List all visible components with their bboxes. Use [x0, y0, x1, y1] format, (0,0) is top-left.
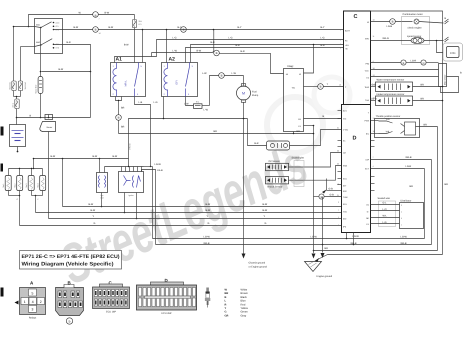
svg-text:B-W: B-W [89, 203, 94, 206]
svg-text:B-W: B-W [124, 44, 129, 47]
svg-text:Knock Sensor: Knock Sensor [268, 185, 283, 188]
svg-text:THW: THW [364, 86, 369, 89]
wire B-W starter feed [42, 68, 92, 118]
bus row3 Y [49, 215, 342, 218]
svg-text:2: 2 [40, 300, 42, 304]
svg-text:B: B [320, 85, 322, 89]
wire VCC [371, 69, 439, 71]
chassis ground text [249, 262, 268, 269]
wire diag OX [304, 115, 342, 118]
svg-text:EFI: EFI [176, 80, 179, 84]
svg-text:Sealed wire: Sealed wire [292, 157, 305, 160]
svg-text:G: G [208, 222, 210, 225]
svg-text:L-W: L-W [173, 50, 178, 53]
svg-text:SPD: SPD [365, 38, 370, 41]
edge mark 1 [1, 127, 4, 136]
connector circle B7 [93, 12, 135, 21]
svg-text:KNK: KNK [343, 165, 348, 168]
svg-text:LG-W: LG-W [401, 236, 408, 239]
connector A relays [20, 281, 46, 320]
fuel pump [237, 76, 259, 103]
svg-text:Y-G: Y-G [386, 118, 390, 121]
connector circle B fp [214, 50, 271, 56]
svg-text:G: G [94, 222, 96, 225]
starter [40, 115, 56, 132]
svg-text:ST2: ST2 [56, 47, 59, 50]
water temperature sensor [371, 79, 444, 92]
svg-text:11: 11 [373, 35, 375, 38]
FCD [437, 41, 463, 62]
relay A1 ground BR [116, 97, 125, 115]
ignitor [119, 167, 144, 198]
ECU connector C box [339, 11, 375, 105]
wire G-B sensor return [322, 179, 342, 194]
connector circle B ig2 [181, 27, 187, 33]
svg-text:THA: THA [365, 99, 370, 102]
connector B [56, 281, 84, 325]
svg-text:GR-B: GR-B [401, 242, 407, 245]
svg-text:D: D [353, 136, 357, 142]
svg-text:W: W [299, 73, 301, 76]
O2 sensor [266, 160, 289, 171]
svg-text:B-W: B-W [59, 68, 64, 71]
svg-text:D: D [423, 62, 425, 65]
title box [20, 251, 122, 270]
injector No.2 [14, 169, 23, 196]
connector C 16P [93, 281, 130, 314]
svg-text:Map sensor: Map sensor [443, 74, 446, 85]
svg-text:MR-L: MR-L [125, 80, 128, 87]
svg-text:B: B [95, 28, 97, 32]
injector No.1 [2, 169, 11, 196]
svg-text:No.4: No.4 [37, 184, 40, 188]
svg-text:Starter: Starter [46, 126, 52, 129]
fuse 30A AM2 [18, 81, 27, 97]
wire LG-R from D [371, 165, 425, 168]
row BR ground [313, 247, 438, 251]
wire circuit opening relay drop [213, 29, 215, 51]
D bottom pin GR-B [353, 233, 355, 246]
svg-text:Green: Green [241, 311, 249, 314]
wire B-W ign IG to B16 [54, 26, 93, 30]
svg-text:VCC: VCC [365, 70, 370, 73]
svg-text:B-W: B-W [91, 209, 96, 212]
knock sensor [266, 177, 289, 189]
svg-text:LG-R: LG-R [406, 165, 412, 168]
svg-text:3: 3 [338, 201, 339, 204]
connector circle B gb [314, 194, 342, 200]
svg-text:LG-W: LG-W [204, 236, 211, 239]
svg-text:4: 4 [373, 165, 374, 168]
svg-text:B: B [225, 296, 227, 299]
svg-text:BR: BR [121, 107, 125, 110]
svg-text:B-R: B-R [211, 41, 215, 44]
wire ignitor drops [124, 193, 138, 220]
svg-text:Ignitor: Ignitor [128, 194, 134, 197]
wire AM1 vertical [13, 26, 15, 81]
svg-text:Yellow: Yellow [241, 307, 249, 310]
svg-text:3: 3 [32, 308, 34, 312]
svg-text:No.3: No.3 [25, 184, 28, 188]
svg-text:L-W: L-W [204, 109, 209, 112]
svg-text:G: G [265, 222, 267, 225]
wire horizontal mid y118 [129, 118, 248, 167]
svg-text:Chassis ground: Chassis ground [249, 262, 266, 265]
sealed wire right [378, 197, 396, 227]
svg-text:7: 7 [373, 156, 374, 159]
svg-text:G-L: G-L [383, 201, 388, 204]
svg-text:LG-W: LG-W [155, 163, 162, 166]
ignition coil [97, 159, 108, 200]
svg-text:2: 2 [401, 204, 402, 207]
svg-text:L-W: L-W [202, 72, 207, 75]
svg-text:Gray: Gray [241, 314, 247, 317]
connector circle B br [116, 115, 125, 134]
wire PIM [371, 60, 439, 65]
svg-text:BR: BR [214, 130, 218, 133]
sealed wire mid [292, 157, 305, 187]
noise filter resistor [34, 71, 43, 119]
svg-text:4: 4 [340, 39, 341, 42]
svg-text:1: 1 [340, 29, 341, 32]
wire B-R to ECU +B [186, 44, 344, 62]
svg-text:B: B [221, 74, 223, 78]
svg-text:22: 22 [337, 150, 339, 153]
svg-text:G-: G- [367, 211, 370, 214]
svg-text:BR: BR [325, 247, 329, 250]
edge arrow mark [15, 301, 19, 305]
wire A1 L-B ignition feed [135, 97, 151, 167]
svg-text:B-W: B-W [105, 12, 110, 15]
svg-text:Red: Red [241, 303, 246, 306]
svg-text:IG1: IG1 [56, 25, 59, 28]
wire diag E1 ground [304, 125, 316, 259]
svg-text:Distributor: Distributor [401, 200, 412, 203]
connector circle B16 [93, 26, 344, 35]
svg-text:7: 7 [99, 18, 100, 21]
wire L-W pump left [202, 72, 218, 105]
D bottom pin LG-W [346, 233, 360, 240]
node fuse join [14, 96, 21, 99]
svg-text:B-W: B-W [93, 155, 98, 158]
wire battery bus [16, 115, 91, 125]
svg-text:No.2: No.2 [14, 184, 17, 188]
svg-text:B-W: B-W [206, 209, 211, 212]
svg-text:M: M [242, 92, 245, 96]
svg-text:L-G: L-G [321, 37, 325, 40]
map sensor [439, 64, 447, 87]
svg-text:STA: STA [343, 211, 347, 214]
svg-text:RPM B: RPM B [129, 143, 132, 150]
svg-text:Sealed wire: Sealed wire [378, 197, 391, 200]
svg-text:White: White [241, 289, 248, 292]
bus row2 B-W [36, 209, 342, 212]
wire injector group F [32, 195, 43, 213]
fuse EFI 20A [124, 15, 143, 63]
svg-text:G-B: G-B [329, 187, 334, 190]
intake temperature sensor [371, 93, 444, 106]
svg-text:A2: A2 [169, 57, 176, 63]
svg-text:ECU 16P: ECU 16P [106, 311, 116, 314]
svg-text:B-R: B-R [254, 142, 258, 145]
svg-text:check engine: check engine [408, 27, 423, 30]
svg-text:9: 9 [340, 43, 341, 46]
svg-text:ISC: ISC [343, 118, 347, 121]
map sensor loop [441, 72, 463, 93]
connector circle B w [387, 19, 413, 28]
svg-text:23: 23 [337, 163, 339, 166]
svg-text:LG-W: LG-W [311, 236, 318, 239]
svg-text:A1: A1 [116, 57, 123, 63]
svg-text:B-W: B-W [263, 209, 268, 212]
wire ST1 branch [35, 27, 41, 72]
svg-text:80A AM1: 80A AM1 [9, 82, 12, 90]
svg-text:Coil: Coil [100, 197, 104, 200]
ignitor top bus [105, 166, 153, 167]
wire L-W relay out [152, 50, 214, 57]
svg-text:B-R: B-R [67, 41, 71, 44]
svg-text:W-L: W-L [383, 214, 388, 217]
wire pump ground to chassis [242, 102, 246, 258]
wire diag bottom stub [293, 132, 294, 135]
svg-text:L-W: L-W [184, 103, 189, 106]
svg-text:L-G: L-G [154, 101, 158, 104]
wire GR-B vertical [431, 160, 433, 245]
svg-text:7: 7 [338, 209, 339, 212]
wire B-R ST2 [54, 41, 91, 72]
battery [10, 125, 26, 153]
svg-text:Relays: Relays [29, 316, 37, 319]
wire knock to D [289, 166, 342, 181]
svg-text:GR-G: GR-G [383, 37, 389, 40]
svg-text:B: B [403, 62, 405, 65]
svg-text:BATT: BATT [345, 30, 351, 33]
svg-text:1: 1 [24, 300, 26, 304]
svg-text:B-W: B-W [113, 155, 118, 158]
svg-text:B: B [118, 116, 120, 120]
svg-text:ACC: ACC [56, 21, 61, 24]
svg-text:8: 8 [340, 47, 341, 50]
wire TPS BR vertical [437, 127, 439, 251]
engine ground triangle [305, 197, 333, 279]
svg-text:BR: BR [225, 292, 229, 295]
svg-text:GR-B: GR-B [406, 156, 412, 159]
D extra pin stubs [338, 111, 375, 191]
row LG-W [153, 236, 425, 239]
svg-text:B-W: B-W [206, 203, 211, 206]
svg-text:b: b [69, 320, 71, 324]
svg-text:Intake temperature sensor: Intake temperature sensor [377, 93, 405, 96]
svg-text:Pump: Pump [252, 94, 259, 97]
resistor R/A [184, 97, 209, 112]
wire LG-R vertical [424, 169, 426, 239]
connector D 26P [137, 278, 197, 315]
wire W ign to B7 [14, 12, 110, 28]
svg-text:No.1: No.1 [2, 184, 5, 188]
svg-text:G-B: G-B [372, 83, 377, 86]
injector No.4 [37, 169, 46, 196]
wire BR bus to diag [119, 130, 314, 133]
svg-text:PSW: PSW [364, 120, 369, 123]
svg-text:LG-B: LG-B [387, 25, 393, 28]
svg-text:Black: Black [241, 296, 248, 299]
wire starter to bus Y [48, 132, 50, 219]
fusible link AM [12, 99, 20, 118]
svg-text:10: 10 [373, 19, 375, 22]
svg-text:Noise filter: Noise filter [34, 84, 37, 93]
wire diag +B [271, 53, 284, 73]
ignition switch SW1 [35, 19, 63, 54]
svg-text:2: 2 [338, 224, 339, 227]
svg-text:BR: BR [424, 124, 428, 127]
wire A2 coil feed [166, 29, 168, 63]
wire W to check engine [371, 21, 390, 23]
svg-text:L-B: L-B [139, 101, 143, 104]
svg-text:Y: Y [225, 307, 227, 310]
svg-text:C: C [354, 14, 358, 20]
svg-text:L-G: L-G [229, 37, 233, 40]
svg-text:1: 1 [338, 216, 339, 219]
wire VSV to D [290, 130, 342, 146]
wire LG-W from ignitor [153, 163, 162, 238]
row GR-B [156, 242, 432, 245]
relay A1 [111, 57, 146, 97]
speed sensor [371, 35, 449, 44]
svg-text:AM L: AM L [12, 103, 15, 107]
svg-text:B: B [321, 196, 323, 199]
svg-text:B-Y: B-Y [238, 26, 242, 29]
svg-text:BR: BR [421, 97, 425, 100]
svg-text:ECU 26P: ECU 26P [162, 312, 172, 315]
svg-text:21: 21 [337, 127, 339, 130]
svg-text:FCD: FCD [450, 52, 455, 55]
svg-text:R: R [225, 303, 227, 306]
svg-text:O2 Sensor: O2 Sensor [269, 160, 281, 163]
wire O2 to D [289, 153, 342, 168]
wire A2 L-G ground [154, 97, 164, 119]
svg-text:Brown: Brown [241, 292, 249, 295]
svg-text:ST1: ST1 [56, 29, 59, 32]
wire E2 [371, 76, 439, 78]
svg-text:W: W [367, 21, 369, 24]
injector No.3 [25, 169, 34, 196]
svg-text:B-Y: B-Y [321, 26, 325, 29]
svg-text:B: B [392, 20, 394, 24]
svg-text:V-ISC: V-ISC [343, 129, 349, 132]
svg-text:B-W: B-W [263, 203, 268, 206]
svg-text:L-G: L-G [173, 37, 177, 40]
svg-text:BR: BR [445, 183, 449, 186]
svg-text:5: 5 [401, 217, 402, 220]
connector circle B pump [219, 72, 244, 78]
relay A2 [162, 57, 198, 97]
svg-text:L-O: L-O [383, 208, 387, 211]
distributor [371, 200, 424, 229]
svg-text:B-W: B-W [109, 26, 114, 29]
svg-text:B: B [183, 28, 185, 32]
throttle position sensor [371, 115, 438, 138]
svg-text:Blue: Blue [241, 300, 247, 303]
wire diag W up [304, 44, 315, 73]
wire B-R to ECU +B1 [191, 41, 344, 63]
svg-text:THW: THW [343, 196, 348, 199]
svg-text:B-W: B-W [197, 50, 202, 53]
wire color legend [225, 289, 249, 318]
ECU connector D box [337, 105, 375, 233]
bus row1 B-W [63, 203, 342, 206]
wire coil ground drop [101, 193, 103, 208]
VSV B-R box [248, 119, 290, 151]
svg-text:G-B: G-B [330, 194, 335, 197]
watermark [51, 77, 350, 296]
svg-text:BR: BR [421, 83, 425, 86]
svg-text:PIM: PIM [365, 63, 369, 66]
svg-text:B-W: B-W [51, 155, 56, 158]
svg-text:16: 16 [99, 32, 101, 35]
svg-text:Combination meter: Combination meter [403, 13, 423, 16]
svg-text:4: 4 [32, 300, 34, 304]
svg-text:Wiring Diagram (Vehicle Specif: Wiring Diagram (Vehicle Specific) [22, 262, 114, 268]
svg-text:30A AM2: 30A AM2 [24, 82, 27, 90]
spark plug [205, 288, 210, 308]
wire A1 switch feed [142, 29, 144, 63]
svg-text:LG-B: LG-B [371, 97, 377, 100]
svg-text:L-G: L-G [383, 221, 387, 224]
fuse 80A AM1 [9, 81, 17, 97]
svg-text:B: B [95, 13, 97, 17]
svg-text:1: 1 [401, 223, 402, 226]
wire GR-B from D [371, 156, 432, 159]
wire B-W ignition line [33, 155, 129, 159]
diag connector [284, 65, 304, 132]
svg-text:4: 4 [401, 210, 402, 213]
svg-text:B: B [216, 51, 218, 55]
svg-text:31: 31 [337, 194, 339, 197]
wire diag TE1 [304, 86, 318, 88]
svg-text:GR: GR [225, 314, 229, 317]
svg-text:5: 5 [32, 291, 34, 295]
svg-text:G: G [225, 311, 227, 314]
bus row4 G [20, 222, 342, 225]
svg-text:B-W: B-W [74, 26, 79, 29]
svg-text:B-R: B-R [241, 50, 245, 53]
wire L2 L-G to ECU FC [115, 37, 344, 63]
edge mark 3 [1, 288, 4, 297]
wire injector group G [9, 195, 21, 226]
svg-text:12: 12 [339, 84, 341, 87]
svg-text:BR: BR [410, 185, 414, 188]
svg-text:EFI: EFI [139, 23, 142, 26]
svg-text:or Engine ground: or Engine ground [249, 266, 268, 269]
svg-text:L-W: L-W [232, 72, 237, 75]
edge mark 2 [1, 164, 4, 172]
wire B-W drop to row1 [62, 159, 64, 207]
svg-text:GR-B: GR-B [204, 242, 210, 245]
injector top bus [9, 159, 43, 170]
svg-text:Engine ground: Engine ground [317, 275, 333, 278]
combination meter [402, 13, 449, 45]
wire AM2 vertical [21, 47, 35, 82]
wire B top right [371, 11, 449, 255]
svg-text:Diag:: Diag: [288, 65, 294, 68]
row B ground [328, 254, 443, 256]
svg-text:LG-R: LG-R [411, 60, 417, 63]
svg-text:LG-B: LG-B [157, 169, 163, 172]
svg-text:EP71 2E-C => EP71 4E-FTE (EP82: EP71 2E-C => EP71 4E-FTE (EP82 ECU) [22, 254, 120, 260]
wire LG-B from ignitor [142, 169, 163, 245]
svg-text:BR: BR [121, 126, 125, 129]
connector circle B te1 [318, 83, 344, 89]
